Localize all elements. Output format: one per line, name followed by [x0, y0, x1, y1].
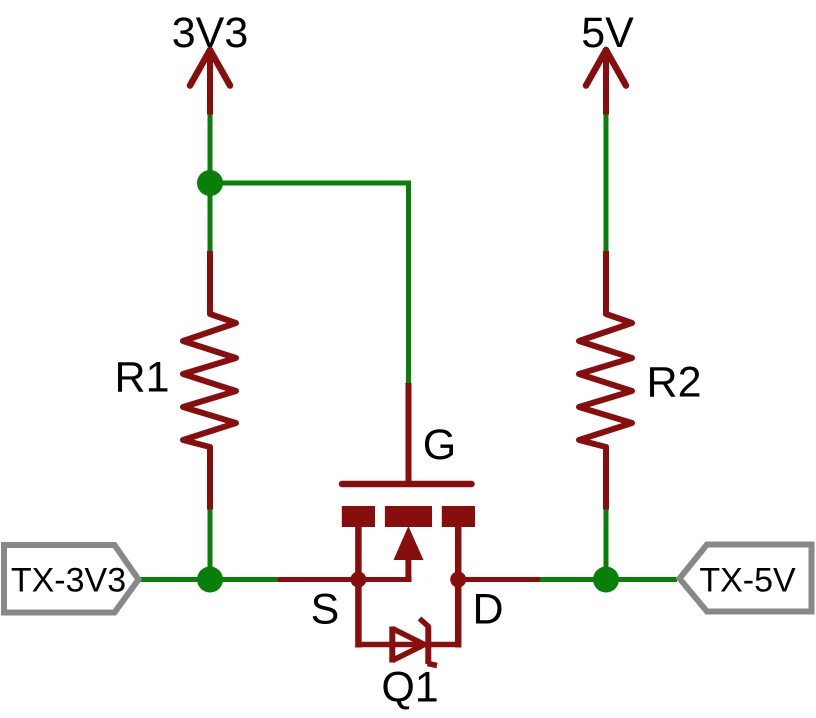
svg-text:D: D	[472, 586, 503, 634]
wire junction to R1	[208, 183, 213, 251]
resistor R1	[183, 251, 236, 510]
transistor Q1 substrate stem	[405, 558, 411, 582]
node junction at 3V3/R1/gate	[197, 170, 223, 196]
wire 5V supply to R2	[604, 113, 609, 251]
node D dot	[450, 572, 466, 588]
diode anode bar	[389, 627, 395, 663]
port TX-3V3	[4, 545, 139, 613]
svg-text:R2: R2	[647, 359, 702, 407]
transistor Q1 gate bar	[342, 481, 472, 488]
diode triangle outline	[392, 629, 424, 661]
svg-text:G: G	[423, 421, 456, 469]
diode cathode bottom hook	[428, 664, 438, 666]
svg-text:S: S	[311, 586, 340, 634]
wire R1 to node	[208, 509, 213, 580]
node S dot	[350, 572, 366, 588]
wire TX-3V3 port to node	[140, 577, 278, 582]
diode cathode bar	[425, 627, 431, 665]
resistor R2	[579, 251, 632, 510]
svg-text:3V3: 3V3	[172, 9, 249, 57]
wire body diode bottom	[358, 642, 458, 648]
wire D pin to R2 node	[540, 577, 677, 582]
supply 5V arrow	[586, 49, 626, 115]
transistor Q1 drain pin horizontal	[458, 577, 540, 582]
transistor Q1 source pin horizontal	[278, 577, 412, 582]
svg-text:TX-3V3: TX-3V3	[11, 562, 126, 600]
wire gate vertical	[406, 181, 411, 384]
transistor Q1 channel right segment	[442, 506, 475, 527]
diode cathode top hook	[420, 619, 430, 628]
transistor Q1 drain vertical	[455, 527, 462, 648]
wire junction to gate (horizontal)	[210, 181, 409, 186]
transistor Q1 gate pin	[406, 383, 412, 484]
supply 3V3 arrow	[190, 49, 230, 115]
transistor Q1 source vertical	[355, 527, 362, 648]
svg-text:TX-5V: TX-5V	[699, 562, 796, 600]
svg-text:R1: R1	[115, 354, 170, 402]
port TX-5V	[680, 545, 812, 612]
transistor Q1 substrate arrow	[394, 526, 424, 560]
transistor Q1 channel middle segment	[385, 506, 432, 527]
svg-text:Q1: Q1	[381, 664, 438, 712]
wire 3V3 supply to junction	[208, 113, 213, 183]
wire R2 to node	[604, 509, 609, 580]
node junction at TX-3V3	[197, 567, 223, 593]
svg-text:5V: 5V	[581, 9, 634, 57]
node junction at TX-5V	[593, 567, 619, 593]
transistor Q1 channel left segment	[342, 506, 375, 527]
